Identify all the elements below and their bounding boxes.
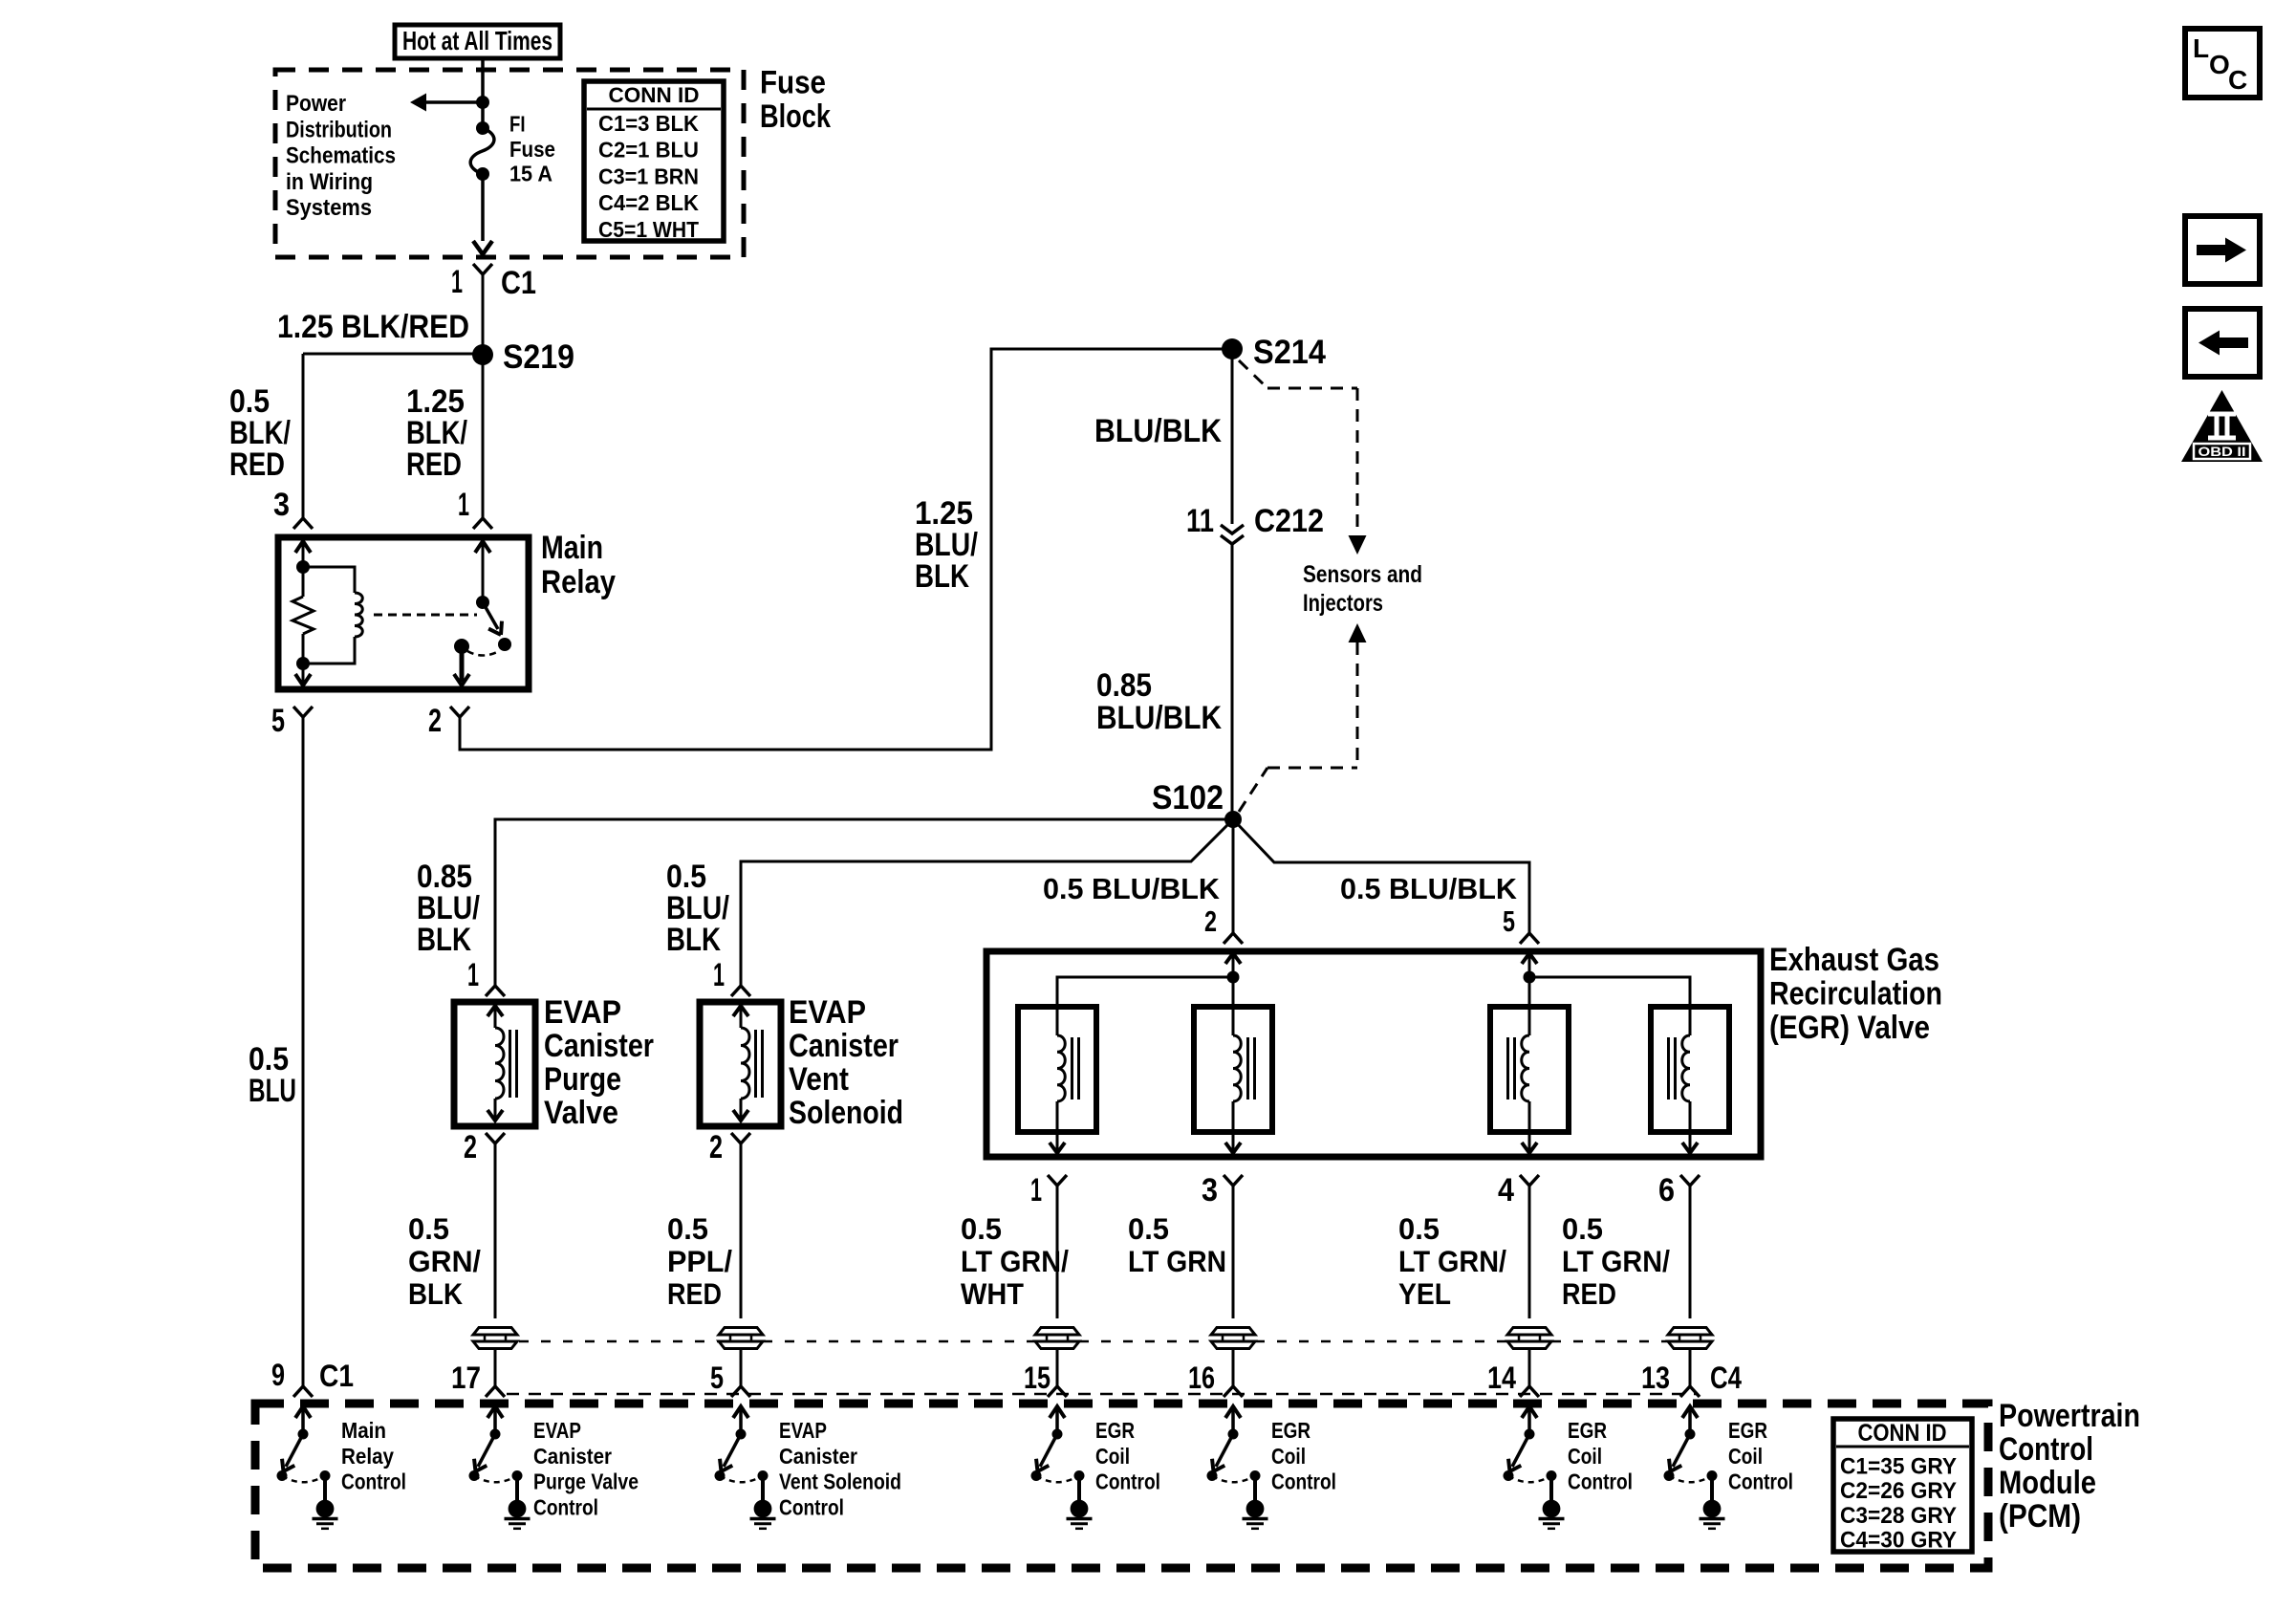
wire: C212 to splice S102 (0.85 BLU/BLK) [1231,544,1234,819]
svg-text:Purge Valve: Purge Valve [533,1469,639,1494]
EVAP canister purge valve box [454,1002,535,1126]
OBD II icon triangle [2181,390,2263,462]
svg-text:Canister: Canister [533,1444,612,1469]
power label box: Hot at All Times [395,25,560,58]
svg-text:Control: Control [1271,1469,1336,1494]
fork at EGR pin 4 [1520,1175,1529,1186]
relay resistor [302,567,305,597]
svg-text:C1=3 BLK: C1=3 BLK [598,111,699,136]
svg-text:Control: Control [1095,1469,1160,1494]
svg-text:16: 16 [1188,1361,1215,1395]
svg-text:0.5 BLU/BLK: 0.5 BLU/BLK [1340,872,1518,905]
relay coil winding [355,593,362,637]
svg-text:Control: Control [779,1494,844,1519]
ground symbol [323,1476,327,1501]
connector table CONN ID (PCM) [1833,1419,1972,1552]
svg-text:Schematics: Schematics [286,143,396,169]
svg-text:BLU/BLK: BLU/BLK [1096,700,1222,736]
svg-text:C1=35 GRY: C1=35 GRY [1840,1454,1957,1480]
svg-text:Recirculation: Recirculation [1769,976,1942,1012]
fork at purge valve pin 2 [486,1133,495,1143]
connector C212 pass-through chevrons [1221,525,1244,533]
svg-text:14: 14 [1487,1361,1516,1395]
svg-text:Control: Control [1999,1431,2093,1468]
svg-text:BLU/BLK: BLU/BLK [1094,413,1222,449]
svg-text:O: O [2209,50,2230,79]
wire: S214 down to connector C212 (BLU/BLK) [1231,349,1234,524]
purge valve core bars [509,1030,511,1098]
navigation icon: arrow right box [2185,216,2260,284]
wire: S219 branch to relay pin 3 [303,353,482,356]
relay switch pivot dot [476,596,489,609]
svg-text:Block: Block [760,98,832,135]
svg-text:C5=1 WHT: C5=1 WHT [598,217,699,242]
dashed harness: S214 to sensors and injectors [1239,360,1267,388]
svg-text:(PCM): (PCM) [1999,1498,2081,1535]
svg-text:15 A: 15 A [509,162,552,186]
wire: S102 branch to EVAP vent solenoid (0.5 BLU/BLK) [741,819,1233,986]
svg-text:S214: S214 [1253,334,1326,371]
svg-text:RED: RED [229,446,285,483]
svg-text:Distribution: Distribution [286,117,392,142]
navigation icon: arrow left box [2185,309,2260,377]
svg-text:Relay: Relay [541,564,616,600]
svg-text:1: 1 [467,957,479,993]
EGR coil 1 box and winding [1018,1007,1096,1132]
svg-text:2: 2 [709,1129,723,1165]
inline connector on pin 13 wire [1668,1328,1712,1336]
EGR pin 5 internal arrow [1522,953,1537,964]
svg-text:17: 17 [451,1361,481,1395]
fork at vent solenoid pin 1 [731,986,741,996]
svg-text:Main: Main [541,530,603,566]
wire: EGR pin 3 to PCM pin 16 (0.5 LT GRN) [1232,1186,1235,1318]
svg-text:13: 13 [1641,1361,1670,1395]
wire: EGR pin 4 to PCM pin 14 (0.5 LT GRN/YEL) [1528,1186,1531,1318]
svg-text:1: 1 [1030,1172,1042,1208]
PCM driver switch: EGR coil control (pin 16) [1225,1406,1241,1418]
exhaust gas recirculation valve box [986,951,1761,1157]
svg-text:EGR: EGR [1095,1418,1135,1443]
svg-text:Coil: Coil [1271,1444,1306,1469]
fork at EGR pin 3 [1224,1175,1233,1186]
svg-text:C3=1 BRN: C3=1 BRN [598,163,699,188]
purge valve internal wire arrows [487,1006,503,1016]
svg-text:Control: Control [341,1469,406,1494]
svg-text:Valve: Valve [544,1095,618,1131]
svg-text:2: 2 [428,703,442,739]
EGR internal link wire to coil 4 [1529,977,1690,1007]
svg-text:C4=30 GRY: C4=30 GRY [1840,1528,1957,1554]
svg-text:3: 3 [273,487,290,523]
svg-text:EVAP: EVAP [544,994,621,1031]
svg-text:C4=2 BLK: C4=2 BLK [598,190,699,215]
fork at EGR pin 1 [1048,1175,1057,1186]
svg-text:EGR: EGR [1568,1418,1607,1443]
EGR internal link wire to coil 1 [1057,977,1233,1007]
svg-text:5: 5 [271,703,285,739]
relay coil branch wiring [303,567,355,593]
dashed tie line through inline connectors [519,1340,719,1343]
svg-text:1: 1 [451,264,463,300]
fork at relay pin 3 [293,518,303,529]
wire: S102 branch to EGR pin 5 (0.5 BLU/BLK) [1233,819,1529,933]
PCM driver switch: EVAP canister purge valve control [487,1406,503,1418]
wire: relay pin 2 to splice S214 (1.25 BLU/BLK) [460,349,1226,750]
svg-text:Sensors and: Sensors and [1303,561,1422,588]
ground symbol [515,1476,519,1501]
svg-text:C2=26 GRY: C2=26 GRY [1840,1478,1957,1504]
ground symbol [1710,1476,1714,1501]
svg-text:Canister: Canister [544,1028,654,1064]
fork at relay pin 5 [293,707,303,717]
vent solenoid core bars [754,1030,757,1098]
PCM driver switch: main relay control [295,1406,311,1418]
svg-text:BLK: BLK [666,922,721,958]
wire: vent solenoid pin 2 to PCM pin 5 (0.5 PPL/RED) [740,1143,743,1318]
svg-text:C4: C4 [1710,1361,1742,1395]
svg-text:WHT: WHT [961,1276,1024,1311]
svg-text:3: 3 [1202,1172,1218,1208]
svg-text:RED: RED [667,1276,722,1311]
PCM driver switch: EGR coil control (pin 13) [1682,1406,1698,1418]
svg-text:2: 2 [1204,904,1217,938]
splice S102 [1224,811,1242,828]
fork at EGR pin 2 [1224,933,1233,944]
inline connector on pin 16 wire [1211,1328,1255,1336]
PCM driver switch: EGR coil control (pin 14) [1522,1406,1537,1418]
svg-text:1.25 BLK/RED: 1.25 BLK/RED [277,309,469,345]
svg-text:BLK: BLK [915,558,969,595]
svg-text:Powertrain: Powertrain [1999,1398,2140,1434]
connector table CONN ID (fuse block) [584,81,724,241]
svg-text:YEL: YEL [1398,1276,1451,1311]
arrow up from S102 harness [1349,623,1367,642]
svg-text:Module: Module [1999,1465,2096,1501]
svg-text:C212: C212 [1254,503,1324,539]
svg-text:FI: FI [509,112,526,137]
svg-text:GRN/: GRN/ [408,1244,481,1278]
powertrain control module dashed box [255,1404,1988,1568]
forks at PCM pins [293,1386,303,1397]
EGR pin 2 internal arrow [1225,953,1241,964]
svg-text:C1: C1 [501,265,536,301]
male terminal arrow at fuse block exit [473,241,492,254]
svg-text:Fuse: Fuse [509,137,555,162]
inline connector on pin 14 wire [1507,1328,1551,1336]
svg-text:0.5: 0.5 [1128,1211,1169,1246]
wire: EGR pin 1 to PCM pin 15 (0.5 LT GRN/WHT) [1056,1186,1059,1318]
svg-text:EVAP: EVAP [533,1418,581,1443]
relay switch contact dot [498,638,511,651]
svg-text:Canister: Canister [789,1028,899,1064]
svg-text:5: 5 [710,1361,724,1395]
svg-text:Purge: Purge [544,1061,621,1098]
svg-text:0.5: 0.5 [1398,1211,1440,1246]
svg-text:1: 1 [713,957,725,993]
relay pin 2 internal wire with arrow [460,646,465,682]
svg-text:Vent Solenoid: Vent Solenoid [779,1469,901,1494]
svg-text:LT GRN/: LT GRN/ [961,1244,1069,1278]
ground symbol [761,1476,765,1501]
svg-text:BLU: BLU [249,1073,296,1109]
locator icon box LOC [2185,29,2260,98]
svg-text:5: 5 [1503,904,1515,938]
inline connector on pin 17 wire [473,1328,517,1336]
wire: relay pin 5 to PCM pin 9 (0.5 BLU) [302,717,305,1386]
svg-text:6: 6 [1658,1172,1675,1208]
svg-text:RED: RED [1562,1276,1616,1311]
fork at relay pin 1 [473,518,483,529]
arrow to power distribution schematics [425,100,483,104]
svg-text:Control: Control [1728,1469,1793,1494]
fork at EGR pin 5 [1520,933,1529,944]
relay actuation dashed link [374,614,477,617]
svg-text:EVAP: EVAP [789,994,866,1031]
svg-text:4: 4 [1498,1172,1514,1208]
svg-text:C1: C1 [319,1359,354,1393]
svg-text:Coil: Coil [1728,1444,1763,1469]
splice S219 [472,344,493,365]
svg-text:0.5: 0.5 [667,1211,708,1246]
relay switch arm with arrow [483,602,498,629]
svg-text:Solenoid: Solenoid [789,1095,903,1131]
svg-text:CONN ID: CONN ID [609,83,700,107]
splice S214 [1222,338,1243,359]
relay output pole dot [454,639,469,654]
wire: EGR pin 6 to PCM pin 13 (0.5 LT GRN/RED) [1689,1186,1692,1318]
dashed harness: S102 to sensors and injectors [1356,642,1359,768]
svg-text:EGR: EGR [1271,1418,1310,1443]
purge valve solenoid coil [495,1028,504,1099]
svg-text:EGR: EGR [1728,1418,1767,1443]
svg-text:Control: Control [1568,1469,1633,1494]
svg-text:RED: RED [406,446,462,483]
svg-text:OBD II: OBD II [2199,444,2246,459]
ground symbol [1549,1476,1553,1501]
svg-text:2: 2 [464,1129,477,1165]
svg-text:Fuse: Fuse [760,65,826,101]
svg-text:15: 15 [1024,1361,1051,1395]
fork at vent solenoid pin 2 [731,1133,741,1143]
EGR coil 2 box and winding [1194,1007,1272,1132]
wire: C1 to S219 to main relay pin 1 [482,274,485,518]
relay switch common from pin 1 [482,537,485,602]
svg-text:BLK: BLK [408,1276,463,1311]
svg-text:0.85: 0.85 [1096,667,1152,704]
svg-text:C: C [2228,65,2247,95]
wire: purge valve pin 2 to PCM pin 17 (0.5 GRN/BLK) [494,1143,497,1318]
svg-text:BLK: BLK [417,922,471,958]
ground symbol [1253,1476,1257,1501]
junction dot in fuse block [476,96,489,109]
fuse block dashed boundary [275,70,744,257]
svg-text:CONN ID: CONN ID [1858,1420,1947,1447]
svg-text:LT GRN: LT GRN [1128,1244,1226,1278]
svg-text:PPL/: PPL/ [667,1244,732,1278]
wire: fuse output to connector C1 [481,174,485,241]
ground symbol [1077,1476,1081,1501]
svg-text:in Wiring: in Wiring [286,169,373,195]
fuse FI 15 A [476,121,489,135]
wire: S102 down to EGR pin 2 (0.5 BLU/BLK) [1232,819,1235,933]
svg-text:Coil: Coil [1568,1444,1602,1469]
EGR coil 3 box and winding [1490,1007,1569,1132]
svg-text:S219: S219 [503,338,574,376]
wire: S102 branch to EVAP purge valve (0.85 BLU/BLK) [495,819,1233,986]
relay coil top node dot [296,560,310,574]
svg-text:Main: Main [341,1418,386,1443]
wire: battery feed into fuse block [481,58,485,128]
inline connector on pin 5 wire [719,1328,763,1336]
svg-text:S102: S102 [1152,779,1224,816]
EGR pin 2 junction dot [1227,971,1240,984]
svg-text:0.5: 0.5 [961,1211,1002,1246]
relay pin 5 internal wire with arrow [302,664,305,686]
relay pin 3 internal wire with arrow [295,541,311,553]
svg-text:Power: Power [286,91,346,117]
svg-text:Vent: Vent [789,1061,849,1098]
svg-text:1: 1 [458,487,469,523]
relay switch throw dashed arc [467,651,499,656]
inline connector on pin 15 wire [1035,1328,1079,1336]
PCM driver switch: EVAP canister vent solenoid control [733,1406,748,1418]
svg-text:11: 11 [1186,503,1214,539]
svg-text:Coil: Coil [1095,1444,1130,1469]
EGR coil 4 box and winding [1651,1007,1729,1132]
svg-text:L: L [2193,33,2209,63]
svg-text:Canister: Canister [779,1444,857,1469]
EVAP canister vent solenoid box [700,1002,781,1126]
EGR pin 5 junction dot [1524,971,1536,984]
svg-text:Exhaust Gas: Exhaust Gas [1769,942,1939,978]
vent solenoid internal wire arrows [733,1006,748,1016]
svg-text:C2=1 BLU: C2=1 BLU [598,138,699,163]
svg-text:(EGR) Valve: (EGR) Valve [1769,1010,1930,1046]
svg-text:Relay: Relay [341,1444,394,1469]
svg-text:Control: Control [533,1494,598,1519]
svg-text:Systems: Systems [286,195,372,221]
svg-text:LT GRN/: LT GRN/ [1562,1244,1670,1278]
relay coil bottom node dot [296,657,310,670]
arrow down to sensors and injectors [1349,535,1367,555]
svg-text:Hot at All Times: Hot at All Times [402,26,552,55]
svg-text:0.5 BLU/BLK: 0.5 BLU/BLK [1043,872,1221,905]
PCM driver switch: EGR coil control (pin 15) [1050,1406,1065,1418]
vent solenoid coil [741,1028,749,1099]
dashed tie line at PCM connector face [507,1393,1697,1396]
connector C1 pin 1 female fork [473,264,483,274]
fork at purge valve pin 1 [486,986,495,996]
fork at EGR pin 6 [1680,1175,1690,1186]
svg-text:9: 9 [271,1358,285,1392]
svg-text:EVAP: EVAP [779,1418,827,1443]
fork at relay pin 2 [450,707,460,717]
svg-text:LT GRN/: LT GRN/ [1398,1244,1506,1278]
svg-text:Injectors: Injectors [1303,590,1383,617]
svg-text:C3=28 GRY: C3=28 GRY [1840,1503,1957,1529]
svg-text:0.5: 0.5 [1562,1211,1603,1246]
main relay box [278,537,529,689]
svg-text:0.5: 0.5 [408,1211,449,1246]
